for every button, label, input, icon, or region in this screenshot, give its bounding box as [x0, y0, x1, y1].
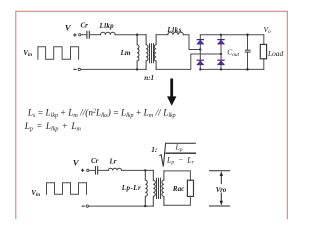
junction dot Lp-Lr top [144, 169, 146, 171]
wire bottom rail (bottom circuit) [89, 205, 154, 207]
svg-text:Lm: Lm [120, 49, 131, 57]
border frame (red) [16, 11, 288, 218]
inductor Lp-Lr (vertical shunt) [145, 170, 147, 206]
wire bottom rail of primary loop [81, 68, 147, 70]
svg-text:Llks: Llks [166, 26, 181, 34]
transformer T2 core [157, 178, 161, 198]
minus terminal mark (bottom circuit) [82, 205, 84, 207]
Vro dimension bottom bar [210, 205, 230, 207]
wire bridge right column [220, 35, 222, 70]
svg-text:Rac: Rac [172, 185, 185, 193]
capacitor Cr (bottom circuit) [96, 167, 98, 175]
svg-text:Load: Load [267, 49, 284, 58]
junction dot bridge right midpoint [220, 53, 222, 55]
diode D3 (bottom-left) [197, 60, 204, 65]
capacitor Cout plates [245, 50, 250, 52]
wire Lr to transformer primary (bottom) [122, 169, 154, 171]
wire load bottom stub [263, 59, 265, 70]
plus terminal mark (top circuit) [74, 34, 76, 36]
capacitor Cout branch wire [247, 35, 249, 70]
svg-text:Cr: Cr [81, 22, 89, 30]
wire Llkp to transformer primary [115, 34, 146, 36]
Vro dimension top bar [210, 170, 230, 172]
wire secondary bottom to bridge right midpoint (step up) [156, 54, 221, 69]
wire secondary loop top (bottom circuit) [164, 171, 191, 180]
node terminal circle bottom (bottom circuit) [86, 205, 88, 207]
junction dot bridge left midpoint [199, 48, 201, 50]
transformer T1 core [150, 44, 154, 63]
wire bridge top rail to load [200, 34, 263, 36]
svg-text:Lp − Lr: Lp − Lr [166, 155, 195, 165]
junction dot Lm top [136, 34, 138, 36]
diode D1 (top-left) [197, 40, 204, 45]
junction dot right column top [220, 34, 222, 36]
square wave Vin (bottom circuit) [47, 183, 87, 194]
transformer T2 primary winding [153, 170, 155, 206]
transformer T1 secondary winding [154, 35, 156, 70]
inductor Lm (magnetizing, vertical) [137, 35, 139, 70]
resistor Rac box [187, 180, 193, 196]
wire bridge bottom rail to load [200, 68, 263, 70]
svg-text:Llkp: Llkp [99, 22, 115, 30]
node terminal circle top (top circuit) [79, 34, 81, 36]
svg-text:Vro: Vro [216, 186, 227, 194]
minus terminal mark (top circuit) [74, 68, 76, 70]
square wave Vin (top circuit) [38, 47, 79, 59]
svg-text:Cr: Cr [91, 157, 99, 165]
junction dot left column bottom [199, 68, 201, 70]
capacitor Cr (top circuit) [87, 31, 89, 38]
Vro arrow line with arrowheads [220, 171, 223, 205]
inductor Lr [108, 168, 121, 170]
node terminal circle top (bottom circuit) [87, 169, 89, 171]
ratio fraction bar [166, 152, 195, 154]
wire load top stub [263, 35, 265, 45]
junction dot right column bottom [220, 68, 222, 70]
junction dot Lm bottom [136, 68, 138, 70]
svg-text:Lr: Lr [109, 158, 117, 166]
wire node to Cr (bottom) [89, 169, 95, 171]
diode D4 (bottom-right) [218, 60, 225, 65]
diode D2 (top-right) [218, 40, 225, 45]
junction dot Lp-Lr bottom [144, 205, 146, 207]
node terminal circle bottom (top circuit) [78, 68, 80, 70]
junction dot Cout top [246, 34, 248, 36]
wire Cr to Llkp [90, 34, 101, 36]
transformer T1 primary winding [146, 35, 148, 70]
svg-text:Lp-Lr: Lp-Lr [121, 184, 141, 192]
junction dot Cout bottom [246, 68, 248, 70]
radical sign of turns ratio [160, 143, 196, 166]
svg-text:1:: 1: [151, 146, 157, 154]
svg-text:n:1: n:1 [144, 74, 154, 82]
inductor Llks [168, 32, 184, 35]
wire bridge left column [199, 35, 201, 70]
inductor Llkp [101, 32, 116, 34]
wire Llks to bridge left midpoint (step down) [183, 35, 200, 50]
wire Cr to Lr [98, 169, 108, 171]
wire secondary top to Llks [156, 34, 168, 36]
plus terminal mark (bottom circuit) [82, 169, 84, 171]
transformer T2 secondary winding [162, 171, 164, 205]
resistor Load box [260, 44, 266, 58]
wire secondary loop bottom (bottom circuit) [164, 196, 191, 205]
arrow (block, downward) [167, 79, 176, 106]
wire node to Cr [81, 34, 86, 36]
